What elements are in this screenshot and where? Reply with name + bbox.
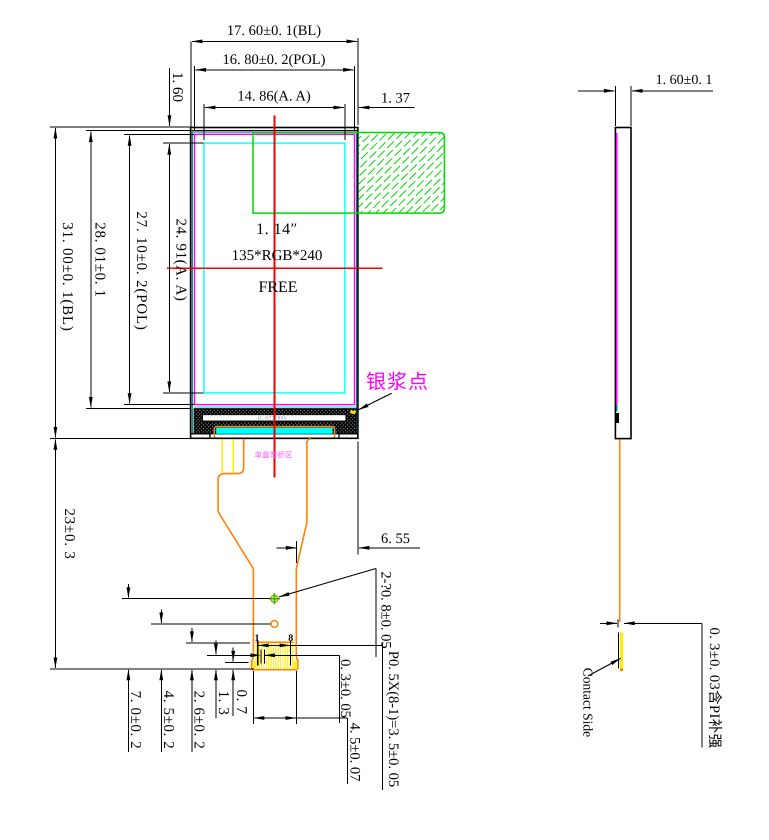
stem 1.3 up arrow [215, 670, 217, 718]
alignment target green center [273, 597, 276, 600]
svg-text:28. 01±0. 1: 28. 01±0. 1 [92, 222, 108, 297]
svg-text:0. 3±0. 05: 0. 3±0. 05 [337, 659, 353, 718]
polarizer POL magenta outline [195, 134, 355, 404]
glass top edge line [191, 130, 358, 132]
connector yellow body [256, 642, 294, 668]
stem 4.5 up arrow [160, 670, 162, 752]
side thickness vertical line [701, 623, 703, 747]
svg-text:31. 00±0. 1(BL): 31. 00±0. 1(BL) [59, 222, 75, 331]
svg-text:IC-ST7789V: IC-ST7789V [257, 416, 287, 422]
svg-text:1. 37: 1. 37 [381, 91, 410, 107]
bonding area cyan top line [194, 406, 356, 408]
svg-text:135*RGB*240: 135*RGB*240 [232, 248, 323, 264]
ext tick FPC tail right [295, 541, 297, 563]
svg-text:P0. 5X(8-1)=3. 5±0. 05: P0. 5X(8-1)=3. 5±0. 05 [385, 651, 401, 787]
contact side leader arrow [588, 658, 621, 676]
svg-text:单直弯折区: 单直弯折区 [255, 451, 293, 460]
4.5 arrow left [253, 716, 264, 720]
pin width arrow pointing left [264, 653, 275, 657]
svg-text:2-?0. 8±0. 05: 2-?0. 8±0. 05 [377, 571, 393, 648]
4.5 arrow right [286, 716, 297, 720]
4.5 vertical line [346, 718, 348, 784]
dim 17.60 line [192, 40, 357, 42]
baseline connector bottom ext [50, 668, 254, 670]
FPC right top corner [307, 439, 311, 443]
dim 31.00 line [54, 128, 56, 437]
ext line POL bottom left [124, 404, 194, 406]
side thickness tick [617, 619, 619, 627]
side thickness dim right arrow line [624, 622, 702, 624]
svg-text:7. 0±0. 2: 7. 0±0. 2 [127, 691, 143, 750]
step arrow 7.0 down [127, 584, 129, 598]
svg-text:0. 7: 0. 7 [233, 690, 249, 715]
side thickness dim left arrow [600, 622, 617, 624]
ext line POL left up [194, 66, 196, 131]
yellow backlight trace 1 [221, 440, 223, 473]
svg-text:Contact Side: Contact Side [581, 668, 596, 737]
active area A.A cyan outline [204, 143, 345, 393]
ext line POL right up [354, 66, 356, 131]
svg-text:2. 6±0. 2: 2. 6±0. 2 [191, 691, 207, 750]
svg-text:23±0. 3: 23±0. 3 [61, 508, 77, 559]
side ext line left up [614, 86, 616, 126]
connector width ext left [252, 671, 254, 724]
svg-text:24. 91(A. A): 24. 91(A. A) [173, 218, 189, 301]
red vertical center line [274, 116, 276, 478]
pin pitch arrow right [280, 644, 291, 648]
pin 1 center line [257, 641, 259, 666]
dim 27.10 line [129, 135, 131, 403]
0.3 vertical line [339, 655, 341, 723]
side view body outline [615, 128, 631, 439]
side contact orange tip [620, 669, 623, 672]
step arrow 1.3 down [215, 641, 217, 655]
ext line POL top left [124, 133, 194, 135]
ext line AA left up [203, 104, 205, 140]
dim 28.01 line [90, 132, 92, 408]
side dim right arrow line [632, 90, 713, 92]
ext line AA bottom left [163, 392, 204, 394]
pin width tick left [260, 650, 262, 664]
step line 0.7 level [225, 661, 248, 663]
dim 1.37 line [359, 107, 415, 109]
connector pin white stripes [258, 642, 291, 668]
4.5 line extension right [297, 717, 348, 719]
svg-text:1. 3: 1. 3 [215, 691, 231, 716]
side view IC black bar [616, 413, 619, 423]
dim 16.80 line [196, 69, 354, 71]
P0.5X vertical line [382, 643, 384, 790]
svg-text:27. 10±0. 2(POL): 27. 10±0. 2(POL) [133, 211, 149, 330]
red horizontal center line [167, 267, 382, 269]
ext line glass top left [86, 130, 190, 132]
FPC connector bottom edge [252, 669, 298, 671]
dim 1.60 vline with down arrow [169, 68, 171, 126]
backlight inner teal outline [192, 132, 356, 434]
pin width line extension right [264, 654, 339, 656]
side dim left arrow line [578, 90, 614, 92]
dim 4.5±0.07 line [253, 717, 296, 719]
IC label white box [203, 415, 346, 421]
IC area crosshatch band [194, 409, 356, 434]
alignment target orange ring [271, 595, 278, 602]
display bottom edge [191, 437, 358, 439]
alignment target green cross [269, 593, 280, 604]
svg-text:银浆点: 银浆点 [366, 372, 429, 394]
stem 7.0 up arrow [127, 670, 129, 752]
svg-text:1: 1 [255, 633, 260, 644]
silver paste dot (yellow) [350, 410, 356, 415]
connector yellow flange [252, 661, 297, 669]
step arrow 4.5 down [160, 609, 162, 623]
side ext line right up [630, 86, 632, 126]
stem 2.6 up arrow [191, 670, 193, 752]
green zone outline [253, 133, 444, 214]
hole callout leader arrow [279, 569, 376, 597]
svg-text:1. 60±0. 1: 1. 60±0. 1 [656, 73, 713, 88]
dim 24.91 line [168, 144, 170, 392]
pin pitch line extension right [291, 644, 383, 646]
ext line glass bottom left [86, 407, 190, 409]
pin 8 center line [290, 641, 292, 666]
side contact black line [617, 632, 619, 668]
ext line AA right up [344, 104, 346, 140]
backlight BL outer black outline [191, 128, 358, 439]
dim 0.3 pin width left arrow [238, 654, 251, 656]
svg-text:4. 5±0. 07: 4. 5±0. 07 [347, 723, 363, 782]
step line connector top level [186, 642, 250, 644]
FPC orange outline right side [296, 441, 307, 669]
step arrow 0.7 down [232, 648, 234, 662]
side FPC orange line [619, 440, 621, 623]
FPC bonding bar orange rounded outline [214, 427, 334, 439]
green zone hatched fill (right of display edge) [359, 133, 445, 214]
pin pitch arrow left [258, 644, 269, 648]
cyan FPC bonding bar fill [216, 428, 332, 434]
6.55 left arrow [277, 547, 297, 549]
svg-text:16. 80±0. 2(POL): 16. 80±0. 2(POL) [222, 52, 325, 68]
hole callout vertical line [375, 569, 377, 658]
yellow backlight trace 2 [232, 440, 234, 473]
svg-text:14. 86(A. A): 14. 86(A. A) [237, 89, 310, 105]
svg-text:1. 60: 1. 60 [169, 72, 185, 102]
dim 14.86 line [205, 107, 344, 109]
svg-text:4. 5±0. 2: 4. 5±0. 2 [160, 691, 176, 750]
svg-text:0. 3±0. 03含PI补强: 0. 3±0. 03含PI补强 [706, 627, 723, 748]
ext line BL top left [50, 126, 190, 128]
stem 0.7 up arrow [232, 670, 234, 716]
ext line BL bottom left [50, 437, 190, 439]
svg-text:8: 8 [288, 633, 293, 644]
ext line BL left up [190, 41, 192, 127]
side view teal line segment [616, 405, 618, 412]
connector width ext right [296, 671, 298, 724]
ext line BL right up [357, 38, 359, 125]
side view POL magenta line [616, 133, 618, 405]
FPC orange outline left side [218, 439, 253, 669]
step line hole circle level [151, 623, 271, 625]
6.55 right arrow line [359, 547, 420, 549]
step line pin level [207, 654, 252, 656]
silver paste leader arrow [358, 393, 391, 410]
svg-text:6. 55: 6. 55 [381, 531, 410, 547]
ext line AA top left [163, 142, 204, 144]
svg-text:1. 14″: 1. 14″ [256, 221, 298, 238]
step line target circle level [122, 598, 270, 600]
dim 23 line [54, 439, 56, 668]
step arrow 2.6 down [191, 628, 193, 642]
dim pin pitch line with outward arrows [258, 644, 291, 646]
bottom-left corner notch [191, 434, 210, 439]
bottom-right corner notch [339, 434, 358, 439]
orange hole circle [271, 621, 278, 628]
pin width arrow pointing right [250, 653, 261, 657]
side contact yellow bar [620, 632, 623, 668]
pin width tick right [263, 650, 265, 664]
svg-text:FREE: FREE [258, 279, 297, 296]
connector top orange edge [256, 641, 294, 643]
ext line display right down [357, 441, 359, 554]
svg-text:17. 60±0. 1(BL): 17. 60±0. 1(BL) [227, 23, 321, 39]
